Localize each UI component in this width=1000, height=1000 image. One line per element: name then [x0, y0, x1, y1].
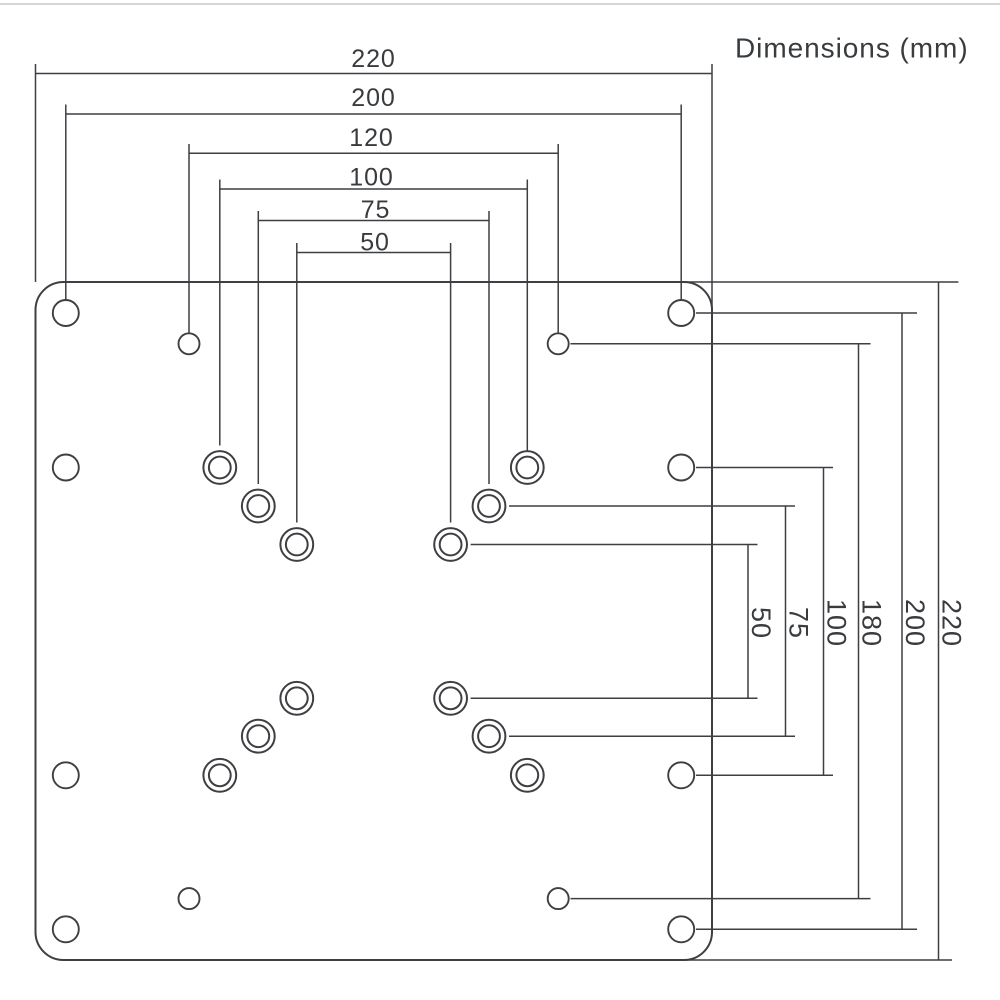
svg-text:200: 200 [900, 599, 930, 647]
dimension 75 right: top extension line [509, 505, 795, 507]
vesa100 ring top-right [511, 451, 544, 484]
dimension 50 right: top extension line [471, 544, 758, 546]
dimension 220 top: line [36, 64, 713, 311]
vesa50 ring bottom-right [434, 682, 467, 715]
small hole bottom-right [548, 888, 569, 909]
svg-text:100: 100 [822, 599, 852, 647]
dimension 220 right: top extension line [683, 281, 958, 283]
dimension 180 right: top extension line [571, 343, 871, 345]
small hole top-left [179, 333, 200, 354]
dimension 50 right: line [471, 545, 758, 699]
dimension 50 right: bottom extension line [471, 697, 758, 699]
svg-text:220: 220 [937, 599, 967, 647]
middle hole right-lower [668, 762, 694, 788]
top page border line [0, 3, 1000, 5]
dimension 120 top: right extension line [557, 144, 559, 333]
dimension 75 top: line [258, 211, 489, 484]
vesa100 ring bottom-left [203, 759, 236, 792]
vesa75 ring bottom-left [242, 720, 275, 753]
svg-text:75: 75 [784, 607, 814, 639]
dimension 220 top: left extension line [35, 64, 37, 282]
dimension 75 right: line [509, 506, 795, 736]
middle hole right-upper [668, 455, 694, 481]
plate outline [36, 282, 713, 960]
dimension 120 top: left extension line [188, 144, 190, 333]
middle hole left-upper [53, 455, 79, 481]
dimension 75 right: bottom extension line [509, 735, 795, 737]
dimension 200 right: bottom extension line [696, 928, 917, 930]
dimension 100 right: bottom extension line [696, 774, 833, 776]
dimension 100 right: line [696, 468, 833, 776]
dimension 200 right: top extension line [696, 312, 917, 314]
vesa50 ring top-right [434, 528, 467, 561]
vesa50 ring top-left [280, 528, 313, 561]
vesa100 ring bottom-right [511, 759, 544, 792]
dimension 200 top: right extension line [680, 105, 682, 301]
dimension 220 right: bottom extension line [683, 959, 952, 961]
dimension 75 top: left extension line [257, 211, 259, 484]
dimension 220 top: right extension line [711, 64, 713, 311]
corner hole bottom-right [668, 916, 694, 942]
corner hole top-left [53, 300, 79, 326]
middle hole left-lower [53, 762, 79, 788]
svg-text:100: 100 [349, 164, 393, 192]
dimension 50 top: line [297, 243, 451, 523]
dimension 200 right: line [696, 313, 917, 929]
svg-text:120: 120 [349, 124, 393, 152]
dimension 200 top: left extension line [65, 105, 67, 301]
svg-text:Dimensions (mm): Dimensions (mm) [735, 33, 969, 64]
vesa75 ring top-left [242, 490, 275, 523]
dimension 100 right: top extension line [696, 467, 833, 469]
dimension 100 top: left extension line [219, 180, 221, 446]
small hole top-right [548, 333, 569, 354]
vesa75 ring top-right [473, 490, 506, 523]
svg-text:50: 50 [360, 229, 390, 257]
corner hole bottom-left [53, 916, 79, 942]
dimension 50 top: right extension line [450, 243, 452, 523]
corner hole top-right [668, 300, 694, 326]
vesa50 ring bottom-left [280, 682, 313, 715]
svg-text:180: 180 [857, 599, 887, 647]
dimension 220 right: line [683, 282, 958, 960]
svg-text:75: 75 [361, 196, 391, 224]
dimension 180 right: bottom extension line [571, 898, 871, 900]
dimension 120 top: line [189, 144, 558, 333]
dimension 50 top: left extension line [296, 243, 298, 523]
small hole bottom-left [179, 888, 200, 909]
svg-text:50: 50 [746, 607, 776, 639]
dimension 200 top: line [66, 105, 681, 301]
dimension 180 right: line [571, 344, 871, 899]
dimension 75 top: right extension line [488, 211, 490, 484]
vesa100 ring top-left [203, 451, 236, 484]
dimension 100 top: line [220, 180, 528, 451]
vesa75 ring bottom-right [473, 720, 506, 753]
svg-text:220: 220 [351, 45, 395, 73]
dimension 100 top: right extension line [526, 180, 528, 451]
svg-text:200: 200 [351, 84, 395, 112]
